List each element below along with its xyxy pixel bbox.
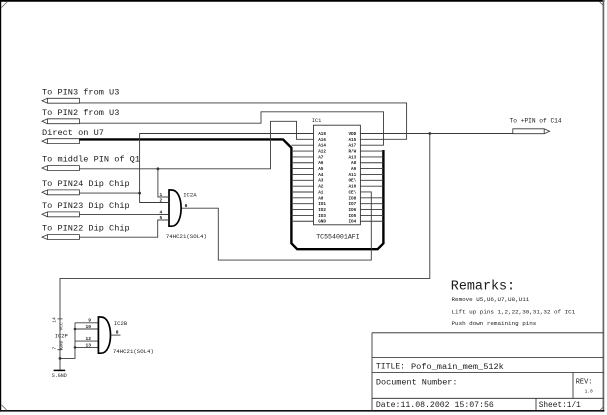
svg-text:A9: A9	[351, 167, 357, 172]
svg-text:A10: A10	[348, 185, 356, 190]
junction dot IC2B pin13	[74, 346, 77, 349]
svg-text:OE\: OE\	[348, 179, 356, 184]
svg-text:Sheet:1/1: Sheet:1/1	[539, 402, 581, 410]
svg-text:A8: A8	[351, 161, 357, 166]
wire A18 to gate pin2	[140, 134, 314, 203]
svg-text:8: 8	[116, 330, 119, 336]
connector flag To PIN2 from U3	[42, 108, 119, 124]
svg-text:A4: A4	[318, 173, 324, 178]
IC2B output stub	[111, 334, 121, 336]
svg-text:A6: A6	[318, 161, 324, 166]
svg-text:A3: A3	[318, 179, 324, 184]
wire VDD to C14 flag	[360, 133, 512, 135]
svg-text:IO4: IO4	[348, 220, 356, 225]
svg-text:IO3: IO3	[318, 214, 326, 219]
thick net Direct on U7 pushed-down pins	[79, 139, 383, 249]
svg-text:A2: A2	[318, 185, 324, 190]
svg-text:Lift up pins 1,2,22,30,31,32 o: Lift up pins 1,2,22,30,31,32 of IC1	[452, 308, 576, 315]
title block	[372, 333, 603, 411]
wire PIN3 to A15	[79, 103, 406, 139]
svg-text:A14: A14	[318, 144, 326, 149]
svg-text:To middle PIN of Q1: To middle PIN of Q1	[42, 155, 140, 165]
svg-text:IC2P: IC2P	[55, 333, 68, 339]
junction dot VDD branch	[428, 132, 431, 135]
svg-text:CE\: CE\	[348, 190, 356, 195]
connector flag To PIN22 Dip Chip	[42, 224, 130, 240]
svg-text:A16: A16	[318, 138, 326, 143]
svg-text:IO7: IO7	[348, 202, 356, 207]
connector flag To +PIN of C14	[510, 118, 562, 134]
svg-text:4: 4	[160, 209, 163, 215]
junction dot IC2B pin10	[74, 328, 77, 331]
svg-text:2: 2	[160, 198, 163, 204]
svg-text:GND: GND	[318, 220, 326, 225]
svg-text:1: 1	[160, 192, 163, 198]
IC1 left pin stubs to thick net	[291, 145, 313, 221]
svg-text:To PIN24 Dip Chip: To PIN24 Dip Chip	[42, 179, 130, 189]
connector flag Direct on U7	[42, 128, 104, 144]
IC1 left pin names	[318, 132, 326, 225]
svg-text:TITLE:: TITLE:	[376, 363, 405, 372]
junction dot Q1/pin1	[157, 167, 160, 170]
IC1 right pin names	[348, 132, 356, 225]
svg-text:REV:: REV:	[576, 379, 593, 387]
svg-text:To PIN22 Dip Chip: To PIN22 Dip Chip	[42, 224, 130, 234]
wire Q1 to gate pin1 and A16	[79, 121, 313, 168]
svg-text:Direct on U7: Direct on U7	[42, 128, 104, 138]
svg-text:IO2: IO2	[318, 208, 326, 213]
connector flag To PIN23 Dip Chip	[42, 201, 130, 217]
svg-text:1.0: 1.0	[585, 389, 593, 395]
svg-text:IC2A: IC2A	[183, 192, 197, 199]
svg-text:VCC: VCC	[58, 322, 64, 331]
svg-text:To +PIN of C14: To +PIN of C14	[510, 118, 562, 125]
IC2B pin numbers	[85, 318, 91, 349]
svg-text:Push down remaining pins: Push down remaining pins	[452, 320, 537, 327]
svg-text:Document Number:: Document Number:	[376, 378, 458, 388]
svg-text:9: 9	[88, 318, 91, 324]
svg-text:10: 10	[85, 324, 91, 330]
svg-text:A11: A11	[348, 173, 356, 178]
wire PIN23 to gate pin4	[79, 213, 169, 215]
svg-text:To PIN3 from U3: To PIN3 from U3	[42, 87, 119, 97]
svg-text:6: 6	[185, 203, 188, 209]
connector flag To PIN24 Dip Chip	[42, 179, 130, 195]
svg-text:IO8: IO8	[348, 196, 356, 201]
svg-text:A13: A13	[348, 155, 356, 160]
AND gate IC2B	[85, 317, 153, 355]
svg-text:74HC21(SOL4): 74HC21(SOL4)	[113, 348, 154, 355]
svg-text:A1: A1	[318, 190, 324, 195]
svg-text:74HC21(SOL4): 74HC21(SOL4)	[166, 233, 207, 240]
wire IC2B inputs to ground	[60, 323, 75, 359]
svg-text:A5: A5	[318, 167, 324, 172]
svg-text:IO1: IO1	[318, 202, 326, 207]
svg-text:A18: A18	[318, 132, 326, 137]
svg-text:14: 14	[52, 317, 58, 323]
IC2A input stubs	[140, 197, 169, 220]
svg-text:A7: A7	[318, 155, 324, 160]
wire gate pin1 branch	[158, 169, 169, 197]
svg-text:TC554001AFI: TC554001AFI	[316, 234, 360, 241]
svg-text:To PIN23 Dip Chip: To PIN23 Dip Chip	[42, 201, 130, 211]
wire gate output to CE	[181, 192, 371, 260]
svg-text:IC2B: IC2B	[114, 320, 128, 327]
svg-text:12: 12	[85, 336, 91, 342]
ground symbol S.GND	[52, 370, 67, 379]
svg-text:5: 5	[160, 215, 163, 221]
svg-text:VDD: VDD	[348, 132, 356, 137]
svg-text:Remarks:: Remarks:	[451, 279, 515, 294]
AND gate IC2A	[140, 190, 207, 240]
IC1 chip body	[314, 125, 361, 225]
svg-text:To PIN2 from U3: To PIN2 from U3	[42, 108, 119, 118]
wire PIN24 to A18 net	[79, 192, 139, 194]
junction dot GND branch	[59, 357, 62, 360]
wire PIN2 to A17	[79, 112, 383, 145]
IC2B input stubs	[75, 323, 98, 348]
svg-text:R/W: R/W	[348, 149, 356, 154]
svg-text:IO6: IO6	[348, 208, 356, 213]
svg-text:A17: A17	[348, 144, 356, 149]
svg-text:A0: A0	[318, 196, 324, 201]
IC2 power pins symbol IC2P	[52, 317, 68, 350]
svg-text:A15: A15	[348, 138, 356, 143]
IC2A pin numbers	[160, 192, 163, 221]
svg-text:A12: A12	[318, 149, 326, 154]
svg-text:S.GND: S.GND	[52, 373, 67, 379]
svg-text:Pofo_main_mem_512k: Pofo_main_mem_512k	[411, 362, 504, 372]
svg-text:GND: GND	[58, 340, 64, 349]
svg-text:Date:11.08.2002 15:07:56: Date:11.08.2002 15:07:56	[376, 401, 494, 410]
wire PIN22 to gate pin5	[79, 220, 169, 237]
svg-text:13: 13	[85, 342, 91, 348]
svg-text:IC1: IC1	[312, 118, 322, 124]
wire VDD down to IC2 power	[60, 134, 430, 370]
IC1 right pin stubs to thick net	[360, 151, 383, 221]
connector flag To PIN3 from U3	[42, 87, 119, 103]
svg-text:Remove U5,U6,U7,U8,U11: Remove U5,U6,U7,U8,U11	[452, 296, 530, 303]
svg-text:IO5: IO5	[348, 214, 356, 219]
junction dot PIN24/A18	[138, 192, 141, 195]
svg-text:7: 7	[52, 347, 58, 350]
connector flag To middle PIN of Q1	[42, 155, 140, 171]
